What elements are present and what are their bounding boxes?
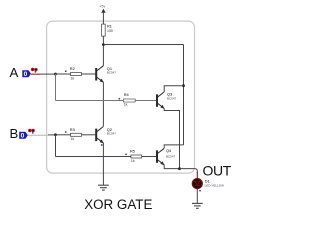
- power +5v arrow symbol: [101, 9, 105, 13]
- svg-text:R5: R5: [130, 149, 135, 154]
- svg-text:OUT: OUT: [203, 162, 232, 178]
- resistor R1: [102, 24, 106, 36]
- wire node B to R3: [56, 134, 71, 136]
- wire right rail down: [183, 45, 185, 145]
- svg-text:R4: R4: [124, 92, 130, 97]
- svg-text:BC547: BC547: [107, 71, 117, 75]
- wire node A to R2: [55, 73, 70, 75]
- svg-text:BC547: BC547: [167, 97, 177, 101]
- svg-text:1k: 1k: [124, 103, 128, 107]
- wire Q2 emitter to ground: [102, 143, 104, 185]
- pin indicator blue dot at R2: [65, 71, 67, 73]
- resistor R3: [71, 133, 82, 136]
- wire node A down (gray net): [55, 74, 57, 101]
- wire R3 to Q2 base: [82, 134, 96, 136]
- logic input A tag: [22, 70, 31, 77]
- wire out row to LED: [180, 169, 198, 173]
- LED D1: [192, 179, 202, 189]
- svg-text:R3: R3: [70, 127, 75, 132]
- pin indicator blue dot at Q2 emitter: [101, 144, 103, 146]
- transistor Q3: [157, 92, 164, 109]
- wire A to node A: [40, 73, 56, 75]
- resistor R2: [71, 73, 82, 76]
- svg-text:0: 0: [21, 133, 25, 140]
- node B junction: [54, 133, 57, 136]
- svg-text:Q4: Q4: [166, 148, 172, 153]
- wire B stub gray: [28, 134, 48, 136]
- wire +5v to R1: [102, 13, 104, 25]
- svg-text:100: 100: [107, 29, 113, 33]
- svg-text:BC547: BC547: [107, 131, 117, 135]
- input B toggle red dot 1: [28, 129, 31, 132]
- resistor R5: [131, 155, 142, 158]
- ground symbol main: [98, 185, 109, 190]
- logic input B tag: [19, 132, 28, 139]
- wire R2 to Q1 base: [82, 73, 96, 75]
- resistor R4: [123, 99, 135, 102]
- svg-text:+5v: +5v: [99, 4, 105, 8]
- pin indicator blue dot at R4: [119, 98, 121, 100]
- node A junction: [54, 73, 57, 76]
- input B toggle red dot 2: [31, 129, 34, 132]
- wire Q3 collector up and right: [164, 86, 183, 92]
- wire Q3 emitter down to out node: [164, 108, 179, 168]
- pin indicator blue dot at B toggle: [32, 132, 34, 134]
- subcircuit boundary box: [47, 21, 195, 173]
- transistor Q2: [96, 127, 103, 144]
- wire Q4 emitter to out row: [164, 165, 179, 169]
- svg-text:R2: R2: [70, 66, 75, 71]
- wire R4 to Q3 base: [135, 100, 156, 102]
- wire Q1 emitter to Q2 collector: [102, 82, 104, 126]
- svg-text:BC547: BC547: [166, 154, 176, 158]
- wire node B down: [55, 135, 57, 157]
- wire R5 to Q4 base: [142, 156, 157, 158]
- wire Q4 collector to right rail: [164, 145, 183, 148]
- pin indicator blue dot at A toggle: [35, 71, 37, 73]
- pin indicator blue dot at R5: [125, 154, 127, 156]
- wire red LED anode: [196, 172, 198, 179]
- node N1 junction: [102, 43, 105, 46]
- wire B net right to R5: [56, 156, 131, 158]
- svg-text:LED-YELLOW: LED-YELLOW: [205, 183, 225, 187]
- wire B to node B: [48, 134, 56, 136]
- wire LED to ground: [196, 191, 198, 204]
- pin indicator blue dot at LED: [199, 190, 201, 192]
- svg-text:1k: 1k: [131, 159, 135, 163]
- svg-text:1k: 1k: [71, 76, 75, 80]
- wire red LED cathode: [196, 188, 198, 190]
- svg-text:0: 0: [24, 71, 28, 78]
- svg-text:A: A: [10, 65, 19, 80]
- node Q3 collector junction: [182, 84, 185, 87]
- input A toggle red dot 1: [31, 68, 34, 71]
- input A toggle red dot 2: [34, 68, 37, 71]
- ground symbol at LED: [192, 203, 203, 208]
- transistor Q1: [96, 66, 103, 83]
- svg-text:XOR GATE: XOR GATE: [84, 197, 152, 212]
- wire A net right to R4: [56, 100, 124, 102]
- svg-text:B: B: [10, 126, 19, 141]
- wire R1 to node N1: [102, 36, 104, 66]
- wire A red stub: [31, 73, 40, 75]
- node OUT junction: [178, 167, 181, 170]
- svg-text:1k: 1k: [71, 137, 75, 141]
- transistor Q4: [157, 148, 164, 165]
- pin indicator blue dot at R3: [65, 131, 67, 133]
- wire node N1 to right rail: [103, 44, 183, 46]
